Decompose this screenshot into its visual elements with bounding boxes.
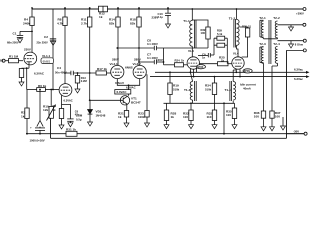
svg-text:C7: C7 — [147, 53, 151, 57]
svg-text:12k: 12k — [43, 108, 48, 112]
svg-text:T1-3: T1-3 — [184, 88, 191, 92]
svg-text:R26: R26 — [242, 24, 247, 28]
svg-text:VL2.2: VL2.2 — [133, 62, 142, 66]
svg-text:110: 110 — [183, 115, 188, 119]
svg-text:R22: R22 — [201, 28, 206, 32]
svg-text:4.7k: 4.7k — [57, 22, 63, 26]
svg-text:T1-1: T1-1 — [183, 19, 190, 23]
svg-text:6N6S: 6N6S — [125, 66, 133, 70]
svg-text:1k: 1k — [221, 59, 225, 63]
svg-text:R6 1k: R6 1k — [38, 84, 47, 88]
svg-text:T1-4: T1-4 — [225, 88, 232, 92]
svg-text:T2-1: T2-1 — [259, 16, 266, 20]
svg-text:110k: 110k — [138, 115, 145, 119]
svg-text:C4: C4 — [57, 66, 61, 70]
svg-text:100: 100 — [254, 115, 259, 119]
svg-text:R31 1k: R31 1k — [66, 128, 76, 132]
svg-text:R17 1k: R17 1k — [97, 67, 107, 71]
svg-text:R13: R13 — [81, 76, 86, 80]
svg-text:T2-3: T2-3 — [259, 42, 266, 46]
svg-text:230V: 230V — [24, 47, 31, 51]
svg-text:1n: 1n — [202, 56, 206, 60]
svg-text:0.1µ: 0.1µ — [158, 15, 164, 19]
svg-text:280V: 280V — [112, 58, 119, 62]
svg-text:50n 400V: 50n 400V — [55, 71, 67, 75]
svg-text:2.2M: 2.2M — [81, 79, 88, 83]
svg-text:1N4148: 1N4148 — [96, 114, 106, 118]
svg-text:100V: 100V — [156, 58, 163, 62]
svg-text:BC547: BC547 — [131, 101, 141, 105]
svg-text:100: 100 — [275, 115, 280, 119]
svg-text:1k: 1k — [53, 108, 57, 112]
svg-text:510k: 510k — [205, 88, 212, 92]
svg-text:C1: C1 — [13, 32, 17, 36]
svg-text:6P3S: 6P3S — [244, 69, 251, 73]
svg-text:1000.0×16V: 1000.0×16V — [30, 139, 45, 143]
svg-text:280V: 280V — [134, 58, 141, 62]
svg-text:6.3VAC: 6.3VAC — [34, 72, 45, 76]
svg-text:6.3Vac: 6.3Vac — [294, 77, 303, 81]
svg-text:+: + — [30, 126, 32, 130]
svg-text:VL4: VL4 — [233, 52, 239, 56]
svg-text:R24: R24 — [175, 58, 181, 62]
svg-text:22n 250V: 22n 250V — [37, 41, 49, 45]
svg-text:6.3Vac: 6.3Vac — [294, 68, 303, 72]
svg-text:1k: 1k — [171, 115, 175, 119]
svg-text:R1 1M: R1 1M — [9, 55, 19, 59]
svg-text:C2: C2 — [44, 35, 48, 39]
svg-text:C8: C8 — [147, 39, 151, 43]
svg-text:T2-4: T2-4 — [273, 42, 280, 46]
svg-text:510k: 510k — [173, 88, 180, 92]
svg-text:1k: 1k — [21, 115, 25, 119]
svg-text:VL2.1: VL2.1 — [110, 62, 119, 66]
svg-text:Bx: Bx — [0, 59, 4, 63]
svg-text:1k: 1k — [118, 115, 122, 119]
svg-text:6.3VAC: 6.3VAC — [64, 99, 73, 103]
svg-text:40mA: 40mA — [243, 87, 252, 91]
svg-text:8 Ohm: 8 Ohm — [295, 42, 304, 46]
svg-text:T1-2: T1-2 — [229, 17, 236, 21]
svg-text:6N9S: 6N9S — [43, 59, 51, 63]
svg-text:51: 51 — [248, 24, 251, 28]
svg-text:5.1k: 5.1k — [217, 32, 223, 36]
svg-text:2.7k: 2.7k — [81, 22, 87, 26]
svg-text:110: 110 — [226, 113, 231, 117]
svg-text:6.3VAC: 6.3VAC — [126, 86, 136, 90]
svg-text:VL3: VL3 — [188, 49, 194, 53]
svg-text:82k: 82k — [130, 22, 135, 26]
svg-text:T2-2: T2-2 — [273, 16, 280, 20]
svg-text:0.5µ: 0.5µ — [76, 118, 82, 122]
svg-text:VL1.1: VL1.1 — [42, 54, 51, 58]
svg-text:-30V: -30V — [293, 130, 299, 134]
svg-text:6P3S: 6P3S — [197, 65, 204, 69]
svg-text:82k: 82k — [109, 22, 114, 26]
svg-text:+300V: +300V — [296, 11, 304, 15]
svg-text:0.1 400V: 0.1 400V — [147, 42, 158, 46]
svg-text:1k: 1k — [99, 15, 103, 19]
svg-text:110: 110 — [207, 115, 212, 119]
svg-text:6.3VAC: 6.3VAC — [117, 90, 128, 94]
svg-text:240k: 240k — [23, 22, 30, 26]
svg-text:0.5mV: 0.5mV — [115, 81, 125, 85]
svg-text:100: 100 — [201, 31, 206, 35]
svg-text:68n 250V: 68n 250V — [7, 41, 19, 45]
svg-text:1k: 1k — [181, 58, 185, 62]
